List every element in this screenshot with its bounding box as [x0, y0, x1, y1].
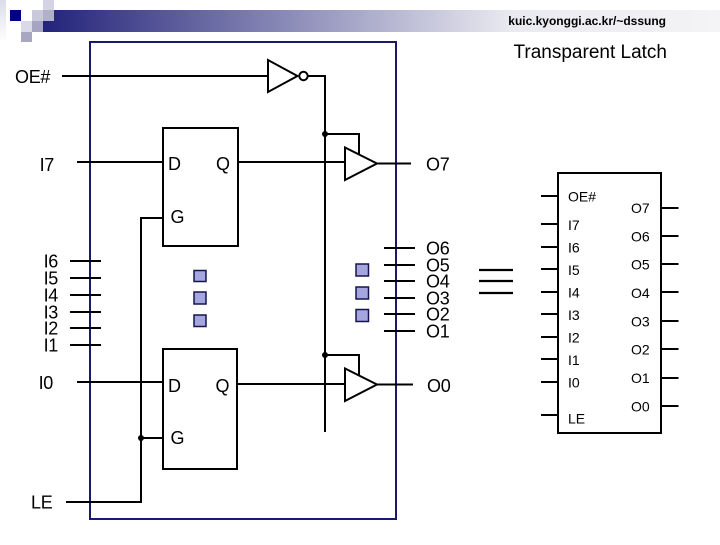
svg-text:Transparent Latch: Transparent Latch — [514, 42, 668, 63]
svg-text:O3: O3 — [631, 313, 650, 329]
wire Q upper to buffer — [238, 161, 345, 163]
ellipsis squares right column — [356, 264, 369, 322]
outer box — [90, 42, 396, 519]
deco square above banner — [43, 0, 54, 10]
svg-text:O7: O7 — [426, 155, 450, 175]
svg-text:I4: I4 — [568, 284, 580, 300]
svg-text:D: D — [168, 154, 181, 174]
svg-text:O4: O4 — [631, 285, 650, 301]
chip right pins — [661, 208, 679, 406]
junction dot LE to lower G — [138, 435, 144, 441]
wire lower enable branch — [325, 355, 359, 376]
svg-text:kuic.kyonggi.ac.kr/~dssung: kuic.kyonggi.ac.kr/~dssung — [508, 14, 666, 28]
banner notch (white corner) — [43, 10, 54, 21]
junction dot upper enable — [322, 131, 328, 137]
svg-text:I0: I0 — [39, 373, 54, 393]
buffer lower — [345, 369, 377, 402]
svg-text:O5: O5 — [631, 257, 650, 273]
wire inverter output — [308, 76, 325, 432]
svg-text:O6: O6 — [631, 228, 650, 244]
wire LE vertical — [66, 218, 163, 502]
latch lower — [163, 349, 237, 469]
svg-text:D: D — [168, 376, 181, 396]
deco square dark navy — [10, 10, 21, 21]
svg-text:I7: I7 — [40, 155, 55, 175]
svg-text:O0: O0 — [631, 398, 650, 414]
svg-text:I3: I3 — [568, 307, 580, 323]
svg-text:I2: I2 — [568, 329, 580, 345]
svg-text:O0: O0 — [427, 376, 451, 396]
wire I0 to D — [77, 381, 163, 383]
svg-text:O2: O2 — [631, 342, 650, 358]
svg-text:I1: I1 — [44, 336, 59, 356]
deco square medium — [43, 10, 54, 21]
wire O0 — [377, 384, 413, 386]
svg-text:O7: O7 — [631, 200, 650, 216]
wire OE# — [62, 75, 268, 77]
chip pin labels left — [568, 189, 596, 427]
banner main gradient strip — [43, 10, 720, 32]
wire O7 — [377, 163, 411, 165]
latch upper — [163, 128, 238, 246]
labels O6-O1 — [426, 239, 450, 342]
chip pin labels right — [631, 200, 650, 414]
svg-text:I6: I6 — [568, 239, 580, 255]
deco square medium2 — [32, 21, 43, 32]
svg-text:I7: I7 — [568, 217, 580, 233]
svg-text:LE: LE — [31, 493, 53, 513]
svg-text:Q: Q — [216, 376, 230, 396]
svg-text:G: G — [171, 207, 185, 227]
inverter bubble — [299, 72, 307, 80]
junction dot lower enable — [322, 352, 328, 358]
chip box — [558, 173, 661, 433]
deco square medium3 — [21, 32, 32, 42]
svg-text:OE#: OE# — [15, 67, 50, 87]
svg-text:G: G — [171, 428, 185, 448]
ellipsis squares left column — [194, 271, 206, 327]
wire Q lower to buffer — [237, 383, 345, 385]
svg-text:LE: LE — [568, 411, 585, 427]
wire upper enable branch — [325, 134, 359, 154]
ticks I6-I1 — [70, 261, 101, 345]
buffer upper — [345, 148, 377, 181]
banner left gradient bar — [0, 0, 6, 42]
svg-text:I5: I5 — [568, 262, 580, 278]
svg-text:I1: I1 — [568, 352, 580, 368]
svg-text:I0: I0 — [568, 374, 580, 390]
wire I7 to D — [77, 161, 163, 163]
inverter U1 — [268, 60, 298, 92]
labels I6-I1 — [44, 252, 59, 356]
svg-text:O1: O1 — [631, 370, 650, 386]
svg-text:O1: O1 — [426, 322, 450, 342]
ticks O6-O1 — [384, 248, 415, 331]
equivalence sign — [479, 270, 513, 293]
svg-text:OE#: OE# — [568, 189, 596, 205]
chip left pins — [541, 196, 558, 415]
deco square light — [32, 10, 43, 21]
svg-text:Q: Q — [216, 154, 230, 174]
wire lower G — [141, 437, 163, 439]
deco square very light — [21, 21, 32, 32]
